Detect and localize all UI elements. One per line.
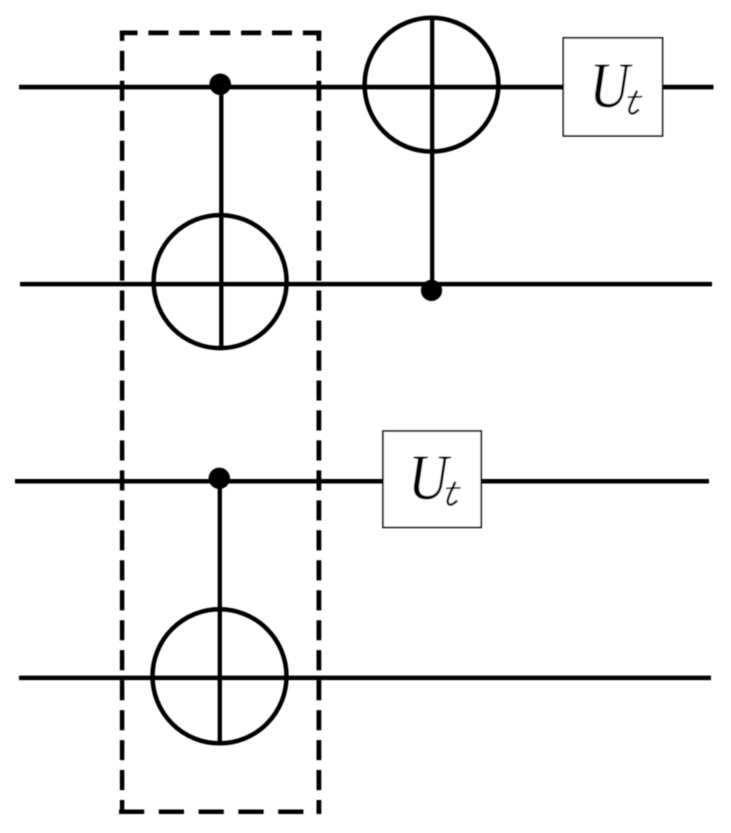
- svg-text:U: U: [590, 50, 633, 122]
- svg-text:U: U: [408, 442, 451, 514]
